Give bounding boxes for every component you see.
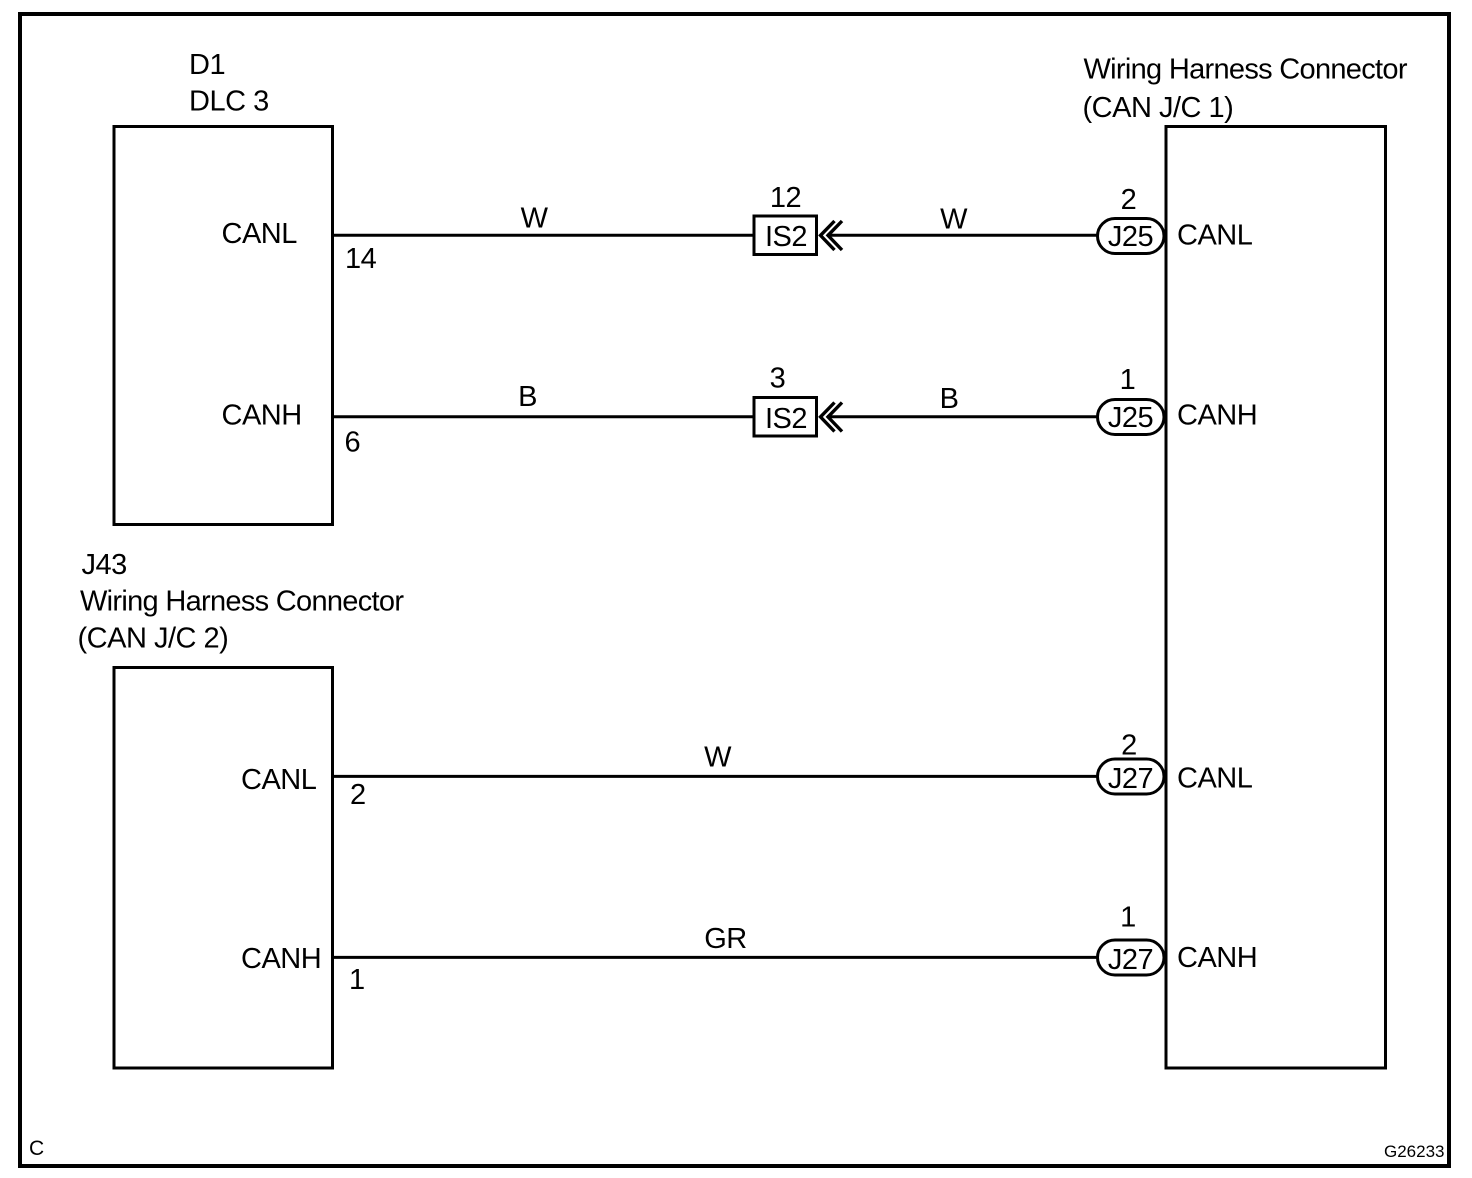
svg-text:6: 6: [345, 427, 361, 459]
terminal J25 pin 2: [1098, 219, 1165, 254]
svg-text:W: W: [521, 203, 549, 235]
connector D1 (DLC 3): [114, 127, 333, 525]
splice IS2 (row 2): [754, 398, 817, 437]
svg-text:CANH: CANH: [1177, 942, 1257, 974]
svg-text:G26233: G26233: [1384, 1142, 1445, 1161]
svg-text:J27: J27: [1108, 944, 1153, 976]
terminal J27 pin 2: [1098, 759, 1165, 795]
svg-text:CANL: CANL: [1177, 220, 1253, 252]
svg-text:DLC 3: DLC 3: [189, 86, 269, 118]
wire GR from J43 pin 1 to J27 pin 1: [333, 956, 1099, 959]
wire W from shield arrow to J25 pin 2: [827, 234, 1098, 237]
label Wiring Harness Connector (CAN J/C 1): [1083, 54, 1408, 125]
connector J43 (CAN J/C 2): [114, 668, 333, 1069]
shield arrow (row 1): [821, 221, 843, 250]
label Wiring Harness Connector (CAN J/C 2): [78, 586, 405, 655]
svg-text:2: 2: [1121, 184, 1137, 216]
svg-text:1: 1: [1120, 902, 1136, 934]
svg-text:IS2: IS2: [765, 221, 807, 253]
svg-text:Wiring Harness Connector: Wiring Harness Connector: [80, 586, 404, 618]
svg-text:CANL: CANL: [222, 218, 298, 250]
wire W from D1 pin 14 to splice IS2: [333, 234, 755, 237]
svg-text:12: 12: [770, 182, 801, 214]
terminal J27 pin 1: [1098, 940, 1165, 976]
wire B from D1 pin 6 to splice IS2: [333, 415, 755, 418]
connector CAN J/C 1: [1166, 127, 1386, 1069]
svg-text:D1: D1: [189, 49, 225, 81]
svg-text:CANH: CANH: [222, 400, 302, 432]
svg-text:J43: J43: [82, 549, 127, 581]
svg-text:J25: J25: [1108, 402, 1153, 434]
svg-text:J25: J25: [1108, 221, 1153, 253]
svg-text:CANH: CANH: [1177, 400, 1257, 432]
svg-text:W: W: [940, 204, 968, 236]
svg-text:B: B: [518, 381, 537, 413]
svg-text:2: 2: [350, 779, 366, 811]
svg-text:14: 14: [345, 243, 377, 275]
shield arrow (row 2): [821, 403, 843, 432]
svg-text:GR: GR: [704, 923, 747, 955]
svg-text:1: 1: [349, 964, 365, 996]
svg-text:J27: J27: [1108, 763, 1153, 795]
svg-text:W: W: [704, 742, 732, 774]
svg-text:B: B: [940, 383, 959, 415]
svg-text:CANL: CANL: [1177, 763, 1253, 795]
wire W from J43 pin 2 to J27 pin 2: [333, 775, 1099, 778]
svg-text:IS2: IS2: [765, 403, 807, 435]
wire B from shield arrow to J25 pin 1: [827, 415, 1098, 418]
svg-text:(CAN J/C 1): (CAN J/C 1): [1083, 92, 1234, 124]
svg-text:CANH: CANH: [241, 943, 321, 975]
svg-text:C: C: [29, 1137, 44, 1160]
svg-text:CANL: CANL: [241, 764, 317, 796]
svg-text:Wiring Harness Connector: Wiring Harness Connector: [1084, 54, 1408, 86]
terminal J25 pin 1: [1098, 400, 1165, 435]
svg-text:1: 1: [1120, 364, 1136, 396]
svg-text:3: 3: [770, 363, 786, 395]
svg-text:(CAN J/C 2): (CAN J/C 2): [78, 623, 229, 655]
splice IS2 (row 1): [754, 216, 817, 255]
svg-text:2: 2: [1121, 730, 1137, 762]
